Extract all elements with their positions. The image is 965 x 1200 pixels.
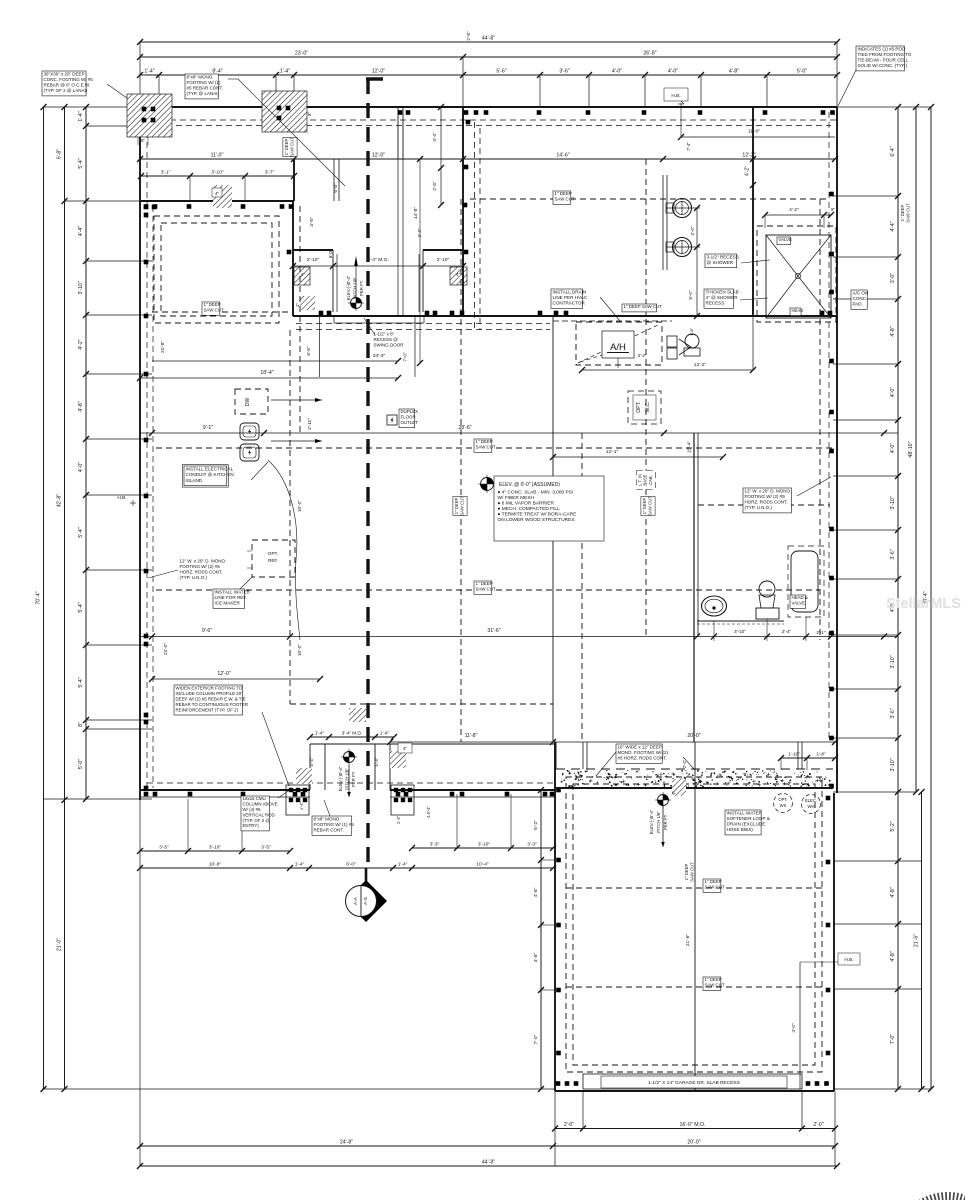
hatch wall jog left lower <box>300 296 315 310</box>
svg-text:INCLUDE COLUMN PROFILE 20": INCLUDE COLUMN PROFILE 20" <box>176 691 244 696</box>
svg-text:1'-8": 1'-8" <box>689 327 694 336</box>
svg-text:2'-10": 2'-10" <box>307 257 320 263</box>
svg-text:1" DEEP SAW CUT: 1" DEEP SAW CUT <box>624 304 663 309</box>
note thicken slab at shower <box>704 289 733 308</box>
svg-text:OPT.: OPT. <box>268 551 278 556</box>
svg-text:HEAD: HEAD <box>792 308 804 313</box>
svg-text:6'-4" M.O.: 6'-4" M.O. <box>367 257 389 263</box>
garage inner dashed outline outer <box>566 777 822 1072</box>
svg-text:2'-10": 2'-10" <box>437 257 450 263</box>
svg-text:4'-8": 4'-8" <box>533 887 539 897</box>
svg-text:INSTALL WATER: INSTALL WATER <box>727 810 763 815</box>
fixture vanity sink oval <box>702 596 727 616</box>
svg-text:5'-2": 5'-2" <box>890 821 896 831</box>
wall garage bottom <box>555 1090 834 1092</box>
svg-text:4'-2": 4'-2" <box>745 166 751 176</box>
svg-text:21'-0": 21'-0" <box>163 643 168 655</box>
duplex floor outlet symbol <box>387 415 397 425</box>
svg-text:1-1/2" x 8": 1-1/2" x 8" <box>374 331 395 336</box>
anchor squares top wall <box>464 110 469 115</box>
svg-text:3'-1": 3'-1" <box>161 170 171 176</box>
svg-text:PAD: PAD <box>853 302 863 307</box>
dim chain entry right 3'-3" 3'-10" 3'-3" <box>412 847 553 849</box>
water heater stub <box>667 336 677 347</box>
svg-text:ON LOWER WOOD STRUCTURES: ON LOWER WOOD STRUCTURES <box>498 517 575 523</box>
sawcut dashed horizontal y448 <box>156 447 835 449</box>
anchor squares garage left wall <box>556 788 561 793</box>
svg-text:SAW CUT: SAW CUT <box>460 496 465 516</box>
svg-text:#5 REBAR CONT.: #5 REBAR CONT. <box>187 86 224 91</box>
label 1 inch deep saw cut <box>703 879 721 892</box>
svg-text:3-1/2" RECESS: 3-1/2" RECESS <box>707 254 739 259</box>
svg-text:4'-8": 4'-8" <box>890 326 896 336</box>
svg-text:REINFORCEMENT (TYP. OF 2): REINFORCEMENT (TYP. OF 2) <box>176 707 239 712</box>
svg-text:3'-6": 3'-6" <box>890 708 896 718</box>
dimension line 21'-6" right <box>921 792 923 1089</box>
svg-text:FOOTING W/ (1): FOOTING W/ (1) <box>187 80 221 85</box>
sawcut dashed horizontal y590 <box>156 589 820 591</box>
svg-text:(TYP. U.N.O.): (TYP. U.N.O.) <box>180 575 208 580</box>
anchor squares footing left <box>142 107 147 112</box>
svg-text:PER FT.: PER FT. <box>351 771 356 787</box>
svg-text:W.C.: W.C. <box>645 401 651 412</box>
svg-text:21'-6": 21'-6" <box>914 934 920 947</box>
svg-text:8": 8" <box>831 207 835 212</box>
island stub arrows <box>271 399 322 401</box>
dimension line overall 44'-8" bottom <box>140 1165 837 1167</box>
svg-text:REBAR @ 6" O.C.E.W.: REBAR @ 6" O.C.E.W. <box>44 83 91 88</box>
fixture shower pan <box>757 226 836 322</box>
garage sawcut dashed y987 <box>566 986 822 988</box>
svg-text:SOFTENER LOOP &: SOFTENER LOOP & <box>727 816 770 821</box>
extension lines left <box>44 106 141 108</box>
svg-text:9'-1": 9'-1" <box>203 425 213 431</box>
svg-text:3'-7": 3'-7" <box>265 170 275 176</box>
svg-text:44'-8": 44'-8" <box>482 36 495 42</box>
svg-text:4'-4": 4'-4" <box>78 226 84 236</box>
svg-text:SOLID W/ CONC. (TYP.): SOLID W/ CONC. (TYP.) <box>858 63 908 68</box>
door recess slab swing door <box>334 316 424 323</box>
dimension line 24'-8" / 20'-0" bottom <box>140 1145 835 1147</box>
svg-text:3'-0": 3'-0" <box>890 273 896 283</box>
svg-text:4": 4" <box>671 791 676 795</box>
fixture powder toilet <box>685 334 699 348</box>
svg-text:1" DEEP: 1" DEEP <box>705 977 722 982</box>
dim line master opening 2'-10" 6'-4" M.O. <box>293 265 463 267</box>
inner wall face dashed top <box>140 119 837 121</box>
wall master opening jamb right <box>423 249 463 251</box>
svg-text:(TYP. OF 2 @: (TYP. OF 2 @ <box>243 818 271 823</box>
svg-text:1-1/2" X 14" GARAGE DR. SLAB: 1-1/2" X 14" GARAGE DR. SLAB RECESS <box>648 1080 740 1086</box>
sawcut dashed vertical x290 <box>289 330 291 704</box>
svg-text:12'-2": 12'-2" <box>694 362 707 368</box>
entry column cluster left <box>286 785 309 815</box>
svg-text:ELEC.: ELEC. <box>805 798 817 803</box>
svg-text:SAW CUT: SAW CUT <box>555 197 575 202</box>
svg-text:8": 8" <box>141 138 145 143</box>
note 36x36 footing <box>42 71 86 96</box>
svg-text:1'-4": 1'-4" <box>398 862 408 868</box>
wall lanai right pair <box>397 107 399 159</box>
label 1 inch deep saw cut <box>474 439 492 452</box>
garage center sawcut line <box>694 742 696 1091</box>
svg-text:SAW CUT: SAW CUT <box>204 308 224 313</box>
sawcut rotated label lanai <box>283 137 297 156</box>
svg-text:4'-0": 4'-0" <box>791 1023 796 1033</box>
svg-text:HEAD &: HEAD & <box>792 595 808 600</box>
svg-text:4'-0": 4'-0" <box>612 69 622 75</box>
inner wall face dashed x474 <box>474 122 476 330</box>
garage inner dashed outline inner <box>573 784 815 1065</box>
svg-text:3'-3": 3'-3" <box>527 842 537 848</box>
anchor squares master opening corners <box>287 250 292 255</box>
svg-text:CAB.: CAB. <box>648 475 653 485</box>
sawcut dashed vertical x820 <box>819 199 821 640</box>
fixture A/H unit dashed <box>576 322 662 365</box>
svg-text:20'-0": 20'-0" <box>687 1140 700 1146</box>
LT in base cab dashed note <box>637 471 656 490</box>
wall bottom entry-right exterior <box>390 789 555 791</box>
hatch entry left <box>296 768 312 784</box>
svg-text:12" W. x 20" D. MONO.: 12" W. x 20" D. MONO. <box>180 558 227 563</box>
note install water softener <box>725 810 761 835</box>
svg-text:10'-8": 10'-8" <box>209 862 222 868</box>
note A/C on conc pad <box>851 290 867 309</box>
svg-text:3'-3": 3'-3" <box>638 353 647 358</box>
garage footing stipple band <box>556 768 833 770</box>
anchor squares garage right wall <box>826 796 831 801</box>
opt wc dashed box <box>628 391 661 424</box>
svg-text:24'-8": 24'-8" <box>340 1140 353 1146</box>
svg-text:ELEV.(-)0'-4": ELEV.(-)0'-4" <box>649 809 654 834</box>
svg-text:4'-8": 4'-8" <box>890 951 896 961</box>
svg-text:1" DEEP: 1" DEEP <box>454 497 459 514</box>
note 3-1/2 recess at shower <box>705 254 737 268</box>
svg-text:4": 4" <box>301 272 305 277</box>
wall bath left vertical <box>752 107 754 316</box>
sawcut label near A/H <box>622 304 657 312</box>
H.B. garage right <box>838 953 860 965</box>
svg-text:1" DEEP: 1" DEEP <box>642 497 647 514</box>
svg-text:1" DEEP: 1" DEEP <box>900 204 905 221</box>
wall left exterior <box>139 107 141 800</box>
anchor squares garage bottom corners <box>556 1081 561 1086</box>
svg-text:12'-0": 12'-0" <box>217 671 230 677</box>
svg-text:2'-0": 2'-0" <box>813 1122 823 1128</box>
entry porch verticals <box>309 744 311 790</box>
svg-text:4'-2": 4'-2" <box>78 339 84 349</box>
svg-text:FOOTING W/ (2) #5: FOOTING W/ (2) #5 <box>745 494 786 499</box>
svg-text:PITCH 1/8": PITCH 1/8" <box>353 277 358 299</box>
sawcut dashed vertical x300 <box>299 206 301 433</box>
entry column cluster right <box>391 785 414 815</box>
svg-text:6'-4": 6'-4" <box>890 146 896 156</box>
dim line 12'-0" bottom left room <box>152 678 320 680</box>
dim line 12'-1" <box>553 456 723 458</box>
svg-text:5'-0": 5'-0" <box>797 69 807 75</box>
svg-text:4'-8": 4'-8" <box>890 887 896 897</box>
svg-text:SAW CUT: SAW CUT <box>476 445 496 450</box>
svg-text:CONC.: CONC. <box>853 296 868 301</box>
svg-text:@ SHOWER: @ SHOWER <box>707 260 734 265</box>
svg-text:21'-0": 21'-0" <box>57 938 63 951</box>
svg-text:REBAR TO CONTINUOUS FOOTER: REBAR TO CONTINUOUS FOOTER <box>176 702 249 707</box>
svg-text:HOSE BIBS): HOSE BIBS) <box>727 827 754 832</box>
svg-text:#5 HORZ. RODS CONT.: #5 HORZ. RODS CONT. <box>618 756 667 761</box>
wall garage right <box>833 793 835 1091</box>
note widen exterior footing entry <box>174 685 242 715</box>
svg-text:12'-1": 12'-1" <box>606 449 619 455</box>
label 1 inch deep saw cut <box>553 191 571 204</box>
svg-text:4" @ SHOWER: 4" @ SHOWER <box>706 295 739 300</box>
anchor squares left wall <box>144 205 149 210</box>
conduit leader curve <box>268 460 300 640</box>
svg-text:42'-8": 42'-8" <box>57 494 63 507</box>
section marker A-A / A-S <box>365 868 368 884</box>
sawcut dashed horizontal y199 <box>470 198 830 200</box>
label head shower <box>790 308 801 316</box>
svg-text:DEEP W/ (2) #5 REBAR E.W. & TI: DEEP W/ (2) #5 REBAR E.W. & TIE <box>176 696 246 701</box>
label saw cut rotated x461 <box>453 496 467 515</box>
svg-text:TIE-BEAM - POUR CELL: TIE-BEAM - POUR CELL <box>858 58 909 63</box>
svg-text:4'-0": 4'-0" <box>78 462 84 472</box>
hatch lanai mid <box>349 708 366 722</box>
svg-text:1'-4": 1'-4" <box>144 69 154 75</box>
svg-text:10'-0": 10'-0" <box>297 644 302 656</box>
vanity counter line <box>697 620 784 622</box>
svg-text:10'-4": 10'-4" <box>476 862 489 868</box>
svg-text:5'-2": 5'-2" <box>533 820 539 830</box>
svg-text:15'-4": 15'-4" <box>687 441 693 454</box>
svg-text:INSTALL DRAIN: INSTALL DRAIN <box>553 289 587 294</box>
elevation marker master opening with up arrow <box>354 256 358 266</box>
svg-text:16" WIDE x 12" DEEP: 16" WIDE x 12" DEEP <box>618 744 662 749</box>
dimension line 48'-10" right <box>915 107 917 792</box>
note install drain line HVAC <box>551 289 583 308</box>
svg-text:4": 4" <box>295 303 300 307</box>
svg-text:OPT.: OPT. <box>778 797 787 802</box>
svg-text:7'-0": 7'-0" <box>403 352 408 362</box>
svg-text:2'-4": 2'-4" <box>782 629 792 634</box>
svg-text:1" DEEP: 1" DEEP <box>684 863 689 880</box>
label garage door slab recess <box>601 1076 787 1088</box>
sawcut dashed vertical x646 <box>645 159 647 636</box>
inner wall face dashed right <box>828 112 830 740</box>
hatch entry right with 4 inch <box>390 751 406 768</box>
svg-text:ICE MAKER: ICE MAKER <box>215 601 241 606</box>
kitchen outlet symbol 2 <box>240 444 259 461</box>
svg-text:5'-6": 5'-6" <box>496 69 506 75</box>
svg-text:REF.: REF. <box>268 558 278 563</box>
svg-text:5'-4": 5'-4" <box>374 757 379 766</box>
svg-text:8'-4": 8'-4" <box>212 69 222 75</box>
svg-text:5'-0": 5'-0" <box>688 290 693 300</box>
sawcut dashed horizontal y312 <box>152 311 293 313</box>
svg-text:3'-4": 3'-4" <box>417 228 422 237</box>
svg-text:SAW CUT: SAW CUT <box>690 862 695 882</box>
svg-text:ELEV.(-)0'-4": ELEV.(-)0'-4" <box>346 275 351 300</box>
svg-text:3'-10": 3'-10" <box>734 629 746 634</box>
svg-text:1" DEEP: 1" DEEP <box>555 191 572 196</box>
svg-text:FLOOR: FLOOR <box>401 415 416 420</box>
svg-text:● 4" CONC. SLAB - MIN. 3,000 P: ● 4" CONC. SLAB - MIN. 3,000 PSI <box>498 489 574 495</box>
svg-text:4": 4" <box>403 746 407 751</box>
svg-text:4'-0": 4'-0" <box>890 443 896 453</box>
sawcut dashed horizontal y704 <box>290 703 553 705</box>
svg-text:● TERMITE TREAT W/ BORA-CARE: ● TERMITE TREAT W/ BORA-CARE <box>498 512 577 518</box>
svg-text:2'-8": 2'-8" <box>466 31 471 41</box>
dimension chain left segments <box>85 107 87 799</box>
elevation marker main with note <box>481 478 494 491</box>
section cut line thick dashed <box>366 77 383 80</box>
note 12W x 20D mono footing right <box>743 488 791 513</box>
dim line 4'-2" shower top <box>765 214 831 216</box>
svg-text:A/H: A/H <box>610 342 626 353</box>
extension lines right <box>837 106 931 108</box>
elec wh dashed circle <box>802 795 821 814</box>
svg-text:8": 8" <box>78 722 84 727</box>
svg-text:OPT.: OPT. <box>636 401 642 413</box>
svg-text:1'-4": 1'-4" <box>380 731 390 736</box>
svg-text:4'-8": 4'-8" <box>533 952 539 962</box>
wall top-middle vertical <box>462 107 464 316</box>
wall toilet pair top <box>662 175 664 270</box>
svg-text:8"x8" MONO.: 8"x8" MONO. <box>314 816 341 821</box>
svg-text:28'-6": 28'-6" <box>458 425 471 431</box>
svg-text:7'-0": 7'-0" <box>533 1034 539 1044</box>
svg-text:● 6 MIL VAPOR BARRIER: ● 6 MIL VAPOR BARRIER <box>498 500 555 506</box>
dimension line overall 70'-4" right <box>930 107 932 1089</box>
fixture master toilet <box>759 581 775 597</box>
svg-text:H.B.: H.B. <box>117 495 126 501</box>
svg-text:1'-10": 1'-10" <box>788 752 800 757</box>
svg-text:DW: DW <box>245 398 251 407</box>
svg-text:4'-8": 4'-8" <box>729 69 739 75</box>
wall master opening jamb left <box>293 249 333 251</box>
label head and valve tub <box>790 595 806 608</box>
label 1 inch deep saw cut <box>703 977 721 990</box>
footing lanai 36x36 hatched left <box>127 94 172 137</box>
anchor squares master wall <box>319 311 324 316</box>
dimension chain garage door bottom <box>555 1128 835 1130</box>
svg-text:6'-8": 6'-8" <box>333 183 338 193</box>
svg-text:3'-10": 3'-10" <box>78 281 84 294</box>
anchor squares bottom-left wall <box>144 792 149 797</box>
svg-text:36"X36" x 20" DEEP: 36"X36" x 20" DEEP <box>44 71 85 76</box>
fixture wall-hung toilet top 2 <box>673 238 692 257</box>
svg-text:11'-0": 11'-0" <box>211 153 224 159</box>
opt ws dashed circle <box>774 794 793 813</box>
svg-text:3'-8": 3'-8" <box>309 217 314 227</box>
H.B. label top <box>664 88 688 101</box>
vertical dim line 14'-8" lanai right <box>419 159 421 363</box>
sawcut dashed vertical x461 <box>460 199 462 742</box>
svg-text:SAW CUT: SAW CUT <box>476 587 496 592</box>
dimension chain top segments <box>140 74 837 76</box>
svg-text:RECESS @: RECESS @ <box>374 337 399 342</box>
svg-text:7'-0": 7'-0" <box>890 1034 896 1044</box>
wall master hall horizontal <box>293 315 837 317</box>
svg-text:21'-8": 21'-8" <box>160 341 165 353</box>
svg-text:INDICATES (1) #5 ROD: INDICATES (1) #5 ROD <box>858 46 907 51</box>
note 8x8 mono footing lanai <box>185 74 218 99</box>
svg-text:5'-4": 5'-4" <box>78 602 84 612</box>
dim line 28'-6" long <box>140 432 898 434</box>
wall bottom-left exterior <box>140 789 310 791</box>
svg-text:23'-0": 23'-0" <box>295 51 308 57</box>
svg-text:1'-4": 1'-4" <box>280 69 290 75</box>
svg-text:4'-0": 4'-0" <box>668 69 678 75</box>
svg-text:2'-1": 2'-1" <box>816 630 826 635</box>
svg-text:4'-2": 4'-2" <box>789 207 799 213</box>
hatch wall jog right with 4" label <box>450 267 467 285</box>
svg-text:PER FT.: PER FT. <box>663 814 668 830</box>
svg-text:FOOTING W/ (1) #5: FOOTING W/ (1) #5 <box>314 822 355 827</box>
svg-text:A-A: A-A <box>353 896 359 905</box>
label 1 inch deep saw cut <box>202 302 220 315</box>
svg-text:(TYP. U.N.O.): (TYP. U.N.O.) <box>745 505 773 510</box>
note 8x8 mono footing entry <box>312 816 352 835</box>
anchor squares footing right <box>277 106 282 111</box>
svg-text:6'-0": 6'-0" <box>346 862 356 868</box>
svg-text:1" DEEP: 1" DEEP <box>705 879 722 884</box>
svg-text:12'-0": 12'-0" <box>372 69 385 75</box>
svg-text:MONO. FOOTING W/ (2): MONO. FOOTING W/ (2) <box>618 750 669 755</box>
svg-text:34'-3": 34'-3" <box>373 353 386 359</box>
svg-text:5'-4": 5'-4" <box>78 677 84 687</box>
svg-text:8": 8" <box>307 112 312 116</box>
wall pantry pair <box>333 159 335 201</box>
svg-text:12'-0": 12'-0" <box>372 153 385 159</box>
svg-text:VALVE: VALVE <box>779 237 793 242</box>
anchor squares right wall <box>829 192 834 197</box>
note install electrical conduit kitchen island <box>184 466 227 486</box>
svg-text:2'-11": 2'-11" <box>307 418 312 430</box>
kitchen island dashed outline inner <box>161 223 272 316</box>
svg-text:HORZ. RODS CONT.: HORZ. RODS CONT. <box>745 500 788 505</box>
svg-text:10'-0": 10'-0" <box>297 500 302 512</box>
dim chain 1'-10" 1'-8" garage corner <box>781 757 835 759</box>
svg-text:3'-10": 3'-10" <box>209 845 222 851</box>
svg-text:7'-4": 7'-4" <box>686 142 691 151</box>
svg-text:11'-8": 11'-8" <box>465 733 478 739</box>
svg-text:ISLAND: ISLAND <box>186 478 203 483</box>
dim line 12'-2" bath interior <box>582 369 753 371</box>
svg-text:31'-6": 31'-6" <box>487 628 500 634</box>
garage top inner line <box>555 742 557 769</box>
fixture wall-hung toilet top 1 <box>673 199 692 218</box>
dim line 11'-8" / 20'-0" garage top <box>390 741 837 743</box>
svg-text:PITCH 1/8": PITCH 1/8" <box>656 811 661 833</box>
svg-text:RECESS: RECESS <box>706 301 725 306</box>
svg-text:(TYP. @ LANAI): (TYP. @ LANAI) <box>187 91 220 96</box>
dim line 18'-4" <box>140 377 398 379</box>
svg-text:SAW CUT: SAW CUT <box>648 496 653 516</box>
svg-text:4'-0": 4'-0" <box>890 387 896 397</box>
wall right exterior <box>836 107 838 793</box>
svg-text:SAW CUT: SAW CUT <box>906 203 911 223</box>
svg-text:LINE FOR REF.: LINE FOR REF. <box>215 595 247 600</box>
svg-text:3'-10": 3'-10" <box>478 842 491 848</box>
svg-text:DRAIN (EXCLUDE: DRAIN (EXCLUDE <box>727 822 766 827</box>
svg-text:4": 4" <box>215 191 219 196</box>
dim chain entry left 3'-5" 3'-10" 3'-5" <box>140 850 290 852</box>
note duplex floor outlet <box>399 409 415 428</box>
svg-text:3'-5": 3'-5" <box>261 845 271 851</box>
sawcut dashed vertical x582 <box>581 433 583 742</box>
svg-text:A/C ON: A/C ON <box>853 290 869 295</box>
svg-text:8'-0": 8'-0" <box>328 249 333 258</box>
